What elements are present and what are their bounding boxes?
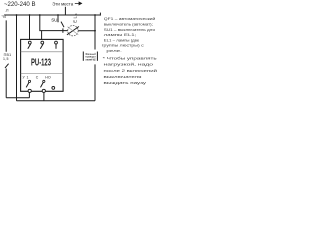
wire N drop from supply [5,20,7,97]
relay input terminal 1 contact [28,44,31,49]
svg-text:ПВ1: ПВ1 [4,53,12,57]
relay output contact 4 circle [28,80,30,82]
svg-text:после 2 включений: после 2 включений [104,68,158,73]
switch SU1 contact tick [62,28,64,32]
svg-text:PU-123: PU-123 [31,57,51,69]
relay input terminal 2 contact [40,44,43,49]
wire bottom return B horizontal [17,100,96,102]
relay bottom terminal 4 circle [28,89,31,92]
relay input terminal 3 circle [55,41,58,44]
relay input terminal 2 circle [41,41,44,44]
svg-text:1,5: 1,5 [3,57,9,61]
wire branch stub to relay terminal 2 [41,31,43,40]
wire terminal 5 drop [43,93,45,101]
wire bottom return A horizontal [6,97,29,99]
junction lamp return at L [94,14,96,16]
junction lamp lead [94,30,96,32]
top annotation leader line [64,7,66,15]
svg-text:~220-240 В: ~220-240 В [4,1,36,8]
svg-text:выключателя: выключателя [104,74,142,79]
lamp EL1 circle [68,26,78,36]
wire terminal 4 drop [28,92,30,98]
switch SU1 blade [61,22,64,28]
lamp EL1 diagonal faint [68,27,79,35]
svg-text:* Чтобы управлять: * Чтобы управлять [103,55,157,60]
wire L end tick [99,13,101,16]
wire lamp return vertical (lower) [94,64,96,100]
svg-text:лампы EL1;: лампы EL1; [104,32,137,37]
svg-text:группы люстры) с: группы люстры) с [102,43,144,48]
wire jumper vertical from L [16,15,18,101]
wire L to relay terminal 1 [29,15,31,40]
svg-text:EL1 – лампы (две: EL1 – лампы (две [104,37,140,42]
break mark on N wire [5,64,9,68]
wire annotation bracket left [82,52,84,61]
relay input terminal 3 contact [55,44,57,49]
svg-text:нагрузкой, надо: нагрузкой, надо [104,62,155,67]
svg-text:НО: НО [45,76,51,80]
svg-text:Эти места: Эти места [52,2,73,8]
relay output contact 5 blade [41,82,44,87]
svg-text:выключатель (автомат);: выключатель (автомат); [104,22,153,27]
relay PU-123 body [21,39,64,91]
svg-text:выждать паузу: выждать паузу [104,80,147,85]
relay output contact 5 circle [43,80,45,82]
wire L branch to switch circuit [40,15,68,31]
wire L main horizontal [4,14,100,16]
lamp EL1 diagonal strong [67,27,79,35]
svg-text:лампе №2: лампе №2 [85,57,96,61]
relay input terminal 1 circle [28,41,31,44]
wire annotation bracket right [96,52,98,61]
svg-text:EL₁: EL₁ [72,13,77,23]
svg-text:реле.: реле. [106,48,122,53]
svg-text:.Л: .Л [5,8,9,12]
svg-text:QF1 – автоматический: QF1 – автоматический [104,16,156,21]
relay bottom terminal 5 circle [42,89,45,92]
wire lamp right lead [78,30,95,32]
relay divider lower [21,73,64,75]
relay output terminal 6 circle [52,87,55,90]
top annotation arrow [75,2,82,5]
svg-text:SU₁: SU₁ [51,18,59,23]
switch SU1 stub from L [57,15,59,22]
junction L terminal1 [29,14,31,16]
wire lamp return vertical (upper) [94,15,96,50]
relay output contact 4 blade [26,82,29,87]
relay divider upper [21,51,64,53]
junction switch stub [57,14,59,16]
junction L jumper [16,14,18,16]
junction L branch [39,14,41,16]
svg-text:SU1 – выключатель для: SU1 – выключатель для [104,27,155,32]
